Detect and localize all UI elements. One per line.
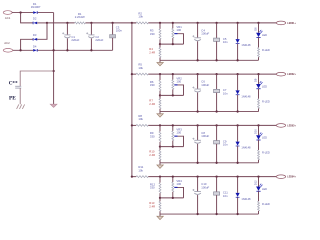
wire junction down to D3 [37,23,47,39]
svg-text:LED02+: LED02+ [287,74,296,76]
node VR4 top [172,176,174,178]
node C3 top [111,22,113,24]
node AC2 junction [19,49,21,51]
svg-text:330: 330 [150,32,155,36]
svg-text:D3: D3 [33,33,37,37]
svg-text:330: 330 [150,134,155,138]
svg-text:R-LED: R-LED [262,151,270,155]
svg-text:10k: 10k [138,117,143,121]
svg-text:LED: LED [262,84,267,88]
wire AC1 down to D2 [21,13,33,23]
svg-text:LED: LED [262,33,267,37]
svg-text:1N4148: 1N4148 [241,43,251,47]
resistor R-LED [258,99,260,109]
ground arrow channel 2 [159,112,161,114]
wire D2 anode to rail [37,22,47,24]
svg-text:LED: LED [262,187,267,191]
wire AC1 to D1 [12,12,33,14]
wire channel 3 bottom rail [160,162,259,164]
potentiometer VR1 [172,23,174,29]
node R6 bottom junction [159,94,161,96]
resistor R2 10k [136,22,148,24]
diode D7 1N4148 [236,73,238,75]
wire left bus [131,23,133,177]
node AC1 junction [19,11,21,13]
svg-text:D8: D8 [254,78,258,82]
svg-text:LED: LED [262,136,267,140]
node R12 bottom junction [159,197,161,199]
svg-text:100: 100 [176,28,181,32]
svg-text:2.2K2W: 2.2K2W [75,15,85,19]
resistor R3 330 [159,23,161,29]
svg-text:10n: 10n [223,91,228,95]
wire channel 2 bottom rail [160,111,259,113]
node C2 top [90,22,92,24]
svg-text:10n: 10n [223,40,228,44]
wire channel 1 top rail [132,22,136,24]
potentiometer VR4 [172,177,174,183]
svg-text:220uF: 220uF [71,38,79,42]
connector LED03+ [276,124,285,128]
wire channel 4 top rail [132,176,136,178]
svg-text:D2: D2 [33,17,37,21]
svg-text:AC1: AC1 [5,16,11,20]
ground arrow channel 3 [159,163,161,165]
diode D5 1N4148 [236,22,238,24]
node PE branch [52,70,54,72]
node bus to channel 4 [131,176,133,178]
svg-text:LED01+: LED01+ [287,23,296,25]
ground arrow channel 4 [159,214,161,216]
node bus to channel 3 [131,124,133,126]
node R6 top [159,73,161,75]
LED D8 [257,73,259,75]
diode D9 1N4148 [236,124,238,126]
resistor R10 2.4R [159,147,161,151]
svg-text:100uF: 100uF [201,185,209,189]
wire D1 cathode to V+ drop [38,12,54,14]
svg-text:R-LED: R-LED [262,48,270,52]
svg-text:10k: 10k [138,15,143,19]
node C1 bottom [66,49,68,51]
capacitor C7 10n [215,73,217,75]
svg-text:AC2: AC2 [4,41,10,45]
resistor R12 330 [159,177,161,183]
wire sense node [160,94,184,96]
wire VR3 wiper loop [178,136,184,146]
diode D11 1N4148 [236,176,238,178]
ground arrow channel 1 [159,60,161,62]
node VR2 anode junction [172,94,174,96]
capacitor C1 220uF [66,23,68,35]
LED D12 [257,176,259,178]
svg-text:C**: C** [9,80,18,86]
node C2 bottom [90,49,92,51]
svg-text:100: 100 [176,79,181,83]
capacitor C5 10n [215,22,217,24]
wire vertical V+ drop [53,13,55,105]
diode D4 [33,49,37,52]
svg-text:1N4007: 1N4007 [31,5,41,9]
node D2-D3 junction [46,22,48,24]
capacitor C4 100uF [196,22,198,24]
svg-text:10k: 10k [138,168,143,172]
capacitor C2 220uF [90,23,92,35]
svg-text:D4: D4 [33,44,37,48]
svg-text:10k: 10k [138,66,143,70]
node R12 top [159,176,161,178]
ground PE earth symbol [17,104,19,109]
resistor R-LED [258,48,260,58]
capacitor C10 100uF [196,176,198,178]
wire channel 2 top rail [132,73,136,75]
power arrow below V+ drop [50,104,57,107]
resistor R-LED [258,150,260,160]
LED D6 [257,22,259,24]
resistor R5 10k [136,73,148,75]
wire PE branch [20,71,53,86]
node V+ drop joins bottom rail [52,49,54,51]
svg-text:100: 100 [176,131,181,135]
resistor R1 2.2K 2W [75,22,86,24]
resistor R11 10k [136,176,148,178]
svg-text:2.4R: 2.4R [149,204,155,208]
svg-text:100uF: 100uF [201,32,209,36]
diode D2 [32,22,34,25]
capacitor C** class-Y [15,85,21,87]
svg-text:10n: 10n [223,194,228,198]
node R9 top [159,124,161,126]
svg-text:220uF: 220uF [95,38,103,42]
wire AC2 to D4 [13,49,33,51]
resistor R6 330 [159,74,161,80]
capacitor C8 100uF [196,124,198,126]
svg-text:LED03+: LED03+ [287,125,296,127]
node VR3 anode junction [172,145,174,147]
svg-text:R-LED: R-LED [262,202,270,206]
resistor R13 2.4R [159,198,161,202]
node bus to channel 2 [131,73,133,75]
svg-text:100: 100 [176,182,181,186]
resistor R8 10k [136,124,148,126]
svg-text:D10: D10 [254,129,258,134]
node bus top [131,22,133,24]
svg-text:2.4R: 2.4R [149,51,155,55]
diode D1 1N4007 [33,11,37,14]
node R3 bottom junction [159,43,161,45]
svg-text:PE: PE [9,96,16,102]
wire sense node [160,197,184,199]
svg-text:330: 330 [150,186,155,190]
wire sense node [160,146,184,148]
wire channel 1 bottom rail [160,59,259,61]
resistor R-LED [258,201,260,211]
capacitor C6 100uF [196,73,198,75]
wire channel 3 top rail [132,124,136,126]
svg-text:2.4R: 2.4R [149,153,155,157]
svg-text:100n: 100n [116,29,123,33]
wire sense node [160,43,184,45]
svg-text:D12: D12 [254,180,258,185]
connector AC1 [3,11,12,15]
potentiometer VR3 [172,125,174,130]
svg-text:2.4R: 2.4R [149,102,155,106]
node R9 bottom junction [159,145,161,147]
svg-text:D6: D6 [254,27,258,31]
node C1 top [66,22,68,24]
resistor R7 2.4R [159,95,161,99]
svg-text:1N4148: 1N4148 [241,146,251,150]
wire VR1 wiper loop [178,34,184,44]
connector AC2 [3,49,13,53]
resistor R9 330 [159,125,161,131]
capacitor C11 10n [215,176,217,178]
wire channel 4 bottom rail [160,213,259,215]
capacitor C3 100n [112,23,114,35]
svg-text:1N4148: 1N4148 [241,94,251,98]
wire D3 cathode to AC2 node [21,39,33,50]
resistor R4 2.4R [159,44,161,48]
node R3 top [159,22,161,24]
wire top rail (V-) [47,22,75,24]
svg-text:R-LED: R-LED [262,99,270,103]
diode D3 [32,38,34,41]
node VR1 top [172,22,174,24]
node VR1 anode junction [172,43,174,45]
svg-text:10n: 10n [223,143,228,147]
wire VR4 wiper loop [178,187,184,197]
svg-text:100uF: 100uF [201,134,209,138]
svg-text:330: 330 [150,83,155,87]
capacitor C9 10n [215,124,217,126]
node VR3 top [172,124,174,126]
LED D10 [257,124,259,126]
node VR2 top [172,73,174,75]
connector LED02+ [276,72,285,76]
node VR4 anode junction [172,197,174,199]
wire VR2 wiper loop [178,85,184,95]
svg-text:100uF: 100uF [201,83,209,87]
potentiometer VR2 [172,74,174,80]
svg-text:1N4148: 1N4148 [241,197,251,201]
connector LED04+ [276,175,285,179]
connector LED01+ [276,21,285,25]
wire bottom rail (V+) [38,49,113,51]
svg-text:LED04+: LED04+ [287,176,296,179]
